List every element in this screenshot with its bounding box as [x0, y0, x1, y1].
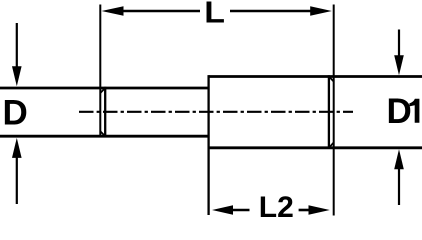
svg-text:D: D — [3, 93, 28, 132]
arrowhead D down — [12, 66, 22, 86]
wire: right chamfer top diagonal — [329, 77, 334, 82]
label D1: digit 1 (footless Arial-style glyph) — [409, 99, 419, 123]
node: right end face + L/L2 right extension line — [333, 5, 335, 216]
wire: big-cylinder top outline / D1 leader line — [209, 75, 422, 78]
svg-text:D: D — [387, 92, 412, 131]
dimension D up-arrow line — [16, 155, 18, 204]
wire: left chamfer top diagonal — [100, 88, 105, 93]
arrowhead L2 left — [212, 205, 233, 215]
wire: big-cylinder bottom outline / D1 leader line — [209, 146, 422, 149]
svg-text:L2: L2 — [259, 191, 294, 220]
dimension D1 up-arrow line — [398, 168, 400, 205]
dimension L line left segment — [122, 10, 200, 13]
arrowhead D1 up — [394, 149, 404, 169]
dimension L2 line right segment — [299, 209, 310, 212]
dimension L2 line left segment — [232, 209, 250, 212]
arrowhead L left — [102, 6, 124, 16]
node: step shoulder edge + L2 left extension line — [207, 75, 209, 215]
dimension L line right segment — [230, 10, 313, 13]
arrowhead D up — [12, 138, 22, 158]
dimension D1 down-arrow line — [398, 30, 400, 59]
wire: right chamfer bottom diagonal — [329, 143, 334, 148]
node: left chamfer circle line — [104, 87, 106, 138]
arrowhead L2 right — [309, 205, 330, 215]
wire: small-shaft bottom outline / D leader line — [0, 135, 209, 138]
node: right chamfer circle line — [328, 75, 330, 149]
wire: small-shaft top outline / D leader line — [0, 87, 209, 90]
wire: left chamfer bottom diagonal — [100, 131, 105, 136]
node: left end face + L left extension line — [99, 5, 101, 137]
dimension D down-arrow line — [16, 23, 18, 70]
arrowhead L right — [310, 6, 332, 16]
arrowhead D1 down — [394, 55, 404, 75]
centerline (dash-dot axis) — [79, 111, 353, 113]
svg-text:L: L — [204, 0, 225, 30]
